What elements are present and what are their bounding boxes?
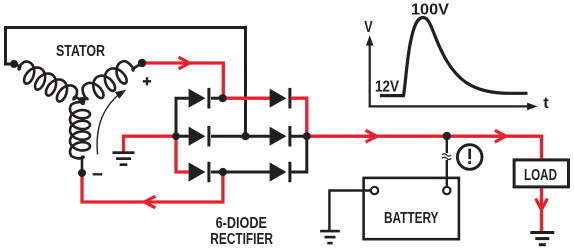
wire D2 cathode to phase B node (211, 135, 246, 138)
wire battery tap lower stub (black) (446, 160, 448, 187)
graph t axis (horizontal with arrow) (369, 105, 529, 107)
wire phase A node to D4 anode (red) (223, 97, 270, 100)
svg-text:V: V (364, 19, 373, 36)
curved current-direction arrow (97, 93, 121, 155)
svg-text:12V: 12V (375, 79, 399, 96)
warning icon (circle with exclamation) (457, 145, 482, 170)
graph V axis (vertical with arrow) (369, 44, 371, 106)
wire load to ground (red) (540, 188, 543, 231)
wire negative bus lower segment (red) (176, 136, 189, 172)
svg-text:BATTERY: BATTERY (384, 210, 439, 227)
stator coil phase C (vertical winding) (70, 101, 90, 174)
wire D5 cathode to positive bus node (291, 135, 307, 138)
stator coil phase B (upper-right winding) (82, 61, 142, 100)
junction dot negative bus node (172, 132, 180, 140)
arrowhead current returning (left) (144, 196, 155, 208)
junction dot phase C node (219, 168, 227, 176)
wire negative bus to ground (red) (124, 136, 177, 152)
svg-text:RECTIFIER: RECTIFIER (210, 231, 273, 248)
battery box (364, 178, 459, 239)
junction dot phase B node (241, 132, 249, 140)
arrowhead load current (down) (536, 199, 548, 210)
junction dot phase A node (219, 94, 227, 102)
wire positive bus upper segment (red) (291, 98, 307, 136)
label + (positive output) (143, 77, 151, 85)
diode D4 (top right) (270, 89, 287, 108)
junction dot battery tap (443, 132, 451, 140)
svg-text:100V: 100V (411, 1, 449, 18)
wire battery tap upper stub (black) (446, 136, 448, 153)
stator coil phase A (upper-left winding) (15, 62, 82, 102)
main positive bus (red) (307, 136, 542, 158)
wire phase C node to D6 anode (223, 171, 270, 174)
diode D1 (top left) (189, 89, 206, 108)
ground stator neutral (113, 151, 135, 154)
svg-text:6-DIODE: 6-DIODE (216, 215, 267, 232)
ground battery (320, 230, 340, 233)
break symbol (wire disconnect squiggles) (442, 154, 451, 156)
svg-text:t: t (543, 95, 549, 112)
arrowhead current out of + (179, 57, 190, 69)
wire negative bus to D2 anode (176, 135, 189, 138)
svg-text:STATOR: STATOR (56, 43, 105, 60)
wire D3 cathode to phase C node (211, 171, 223, 174)
wire phase A + to rectifier top row (red) (142, 63, 223, 98)
junction dot positive bus node (303, 132, 311, 140)
wire battery - to chassis ground (329, 191, 370, 231)
diode D3 (bottom left) (189, 162, 206, 181)
wire positive bus lower segment (black) (291, 136, 307, 172)
arrowhead bus current 1 (366, 130, 377, 142)
wire phase C - return to rectifier bottom row (red) (82, 172, 223, 202)
junction dot stator - terminal (78, 169, 86, 177)
junction dot stator center node (78, 97, 85, 104)
ground load (530, 231, 554, 234)
load box (514, 160, 568, 187)
wire phase B node to D5 anode (246, 135, 270, 138)
junction dot stator + terminal (138, 59, 146, 67)
battery terminal - (left, open circle) (371, 187, 378, 194)
arrowhead bus current 2 (495, 130, 506, 142)
diode D2 (middle left) (189, 127, 206, 146)
graph voltage spike curve (380, 18, 528, 96)
label - (negative return) (93, 173, 103, 175)
junction dot stator left terminal (10, 60, 18, 68)
wire D1 cathode to phase A node (211, 97, 223, 100)
battery terminal + (right, open circle) (443, 187, 450, 194)
diode D6 (bottom right) (270, 162, 287, 181)
diode D5 (middle right) (270, 127, 287, 146)
svg-text:LOAD: LOAD (524, 167, 557, 184)
wire stator left terminal to rectifier mid row (black, around top) (6, 28, 246, 137)
wire negative bus upper segment (black) (176, 98, 189, 136)
